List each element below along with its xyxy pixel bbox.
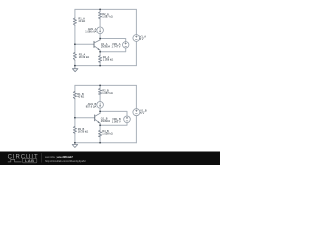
wire left vertical A lower (74, 60, 76, 65)
voltmeter VM1_B minus (126, 120, 128, 122)
transistor Q1_A collector lead (94, 40, 100, 43)
junction node B: rail/ground (74, 142, 76, 144)
transistor Q1_A emitter lead (94, 46, 100, 50)
svg-text:LAB: LAB (25, 158, 34, 163)
wire voltmeter loop bottom B (100, 123, 127, 126)
svg-text:1.058 kΩ: 1.058 kΩ (103, 58, 114, 62)
resistor R1_A zigzag (73, 18, 76, 25)
voltmeter VM1_A circle (123, 42, 129, 48)
wire right vertical A rail-V1 (135, 9, 137, 34)
svg-text:857.6 µA: 857.6 µA (86, 104, 97, 108)
ammeter AM1_B circle (97, 102, 104, 109)
resistor R3_B zigzag (73, 126, 76, 133)
ammeter AM1_B arrow (99, 103, 101, 107)
junction node A: collector/VM (99, 38, 101, 40)
wire left vertical B upper (74, 85, 76, 91)
wire bottom rail B (75, 142, 136, 144)
CircuitLab logo LAB box (23, 158, 37, 162)
voltmeter VM1_A minus (125, 45, 127, 47)
wire voltmeter loop bottom A (100, 48, 126, 52)
junction node B: collector/VM (99, 111, 101, 113)
voltmeter VM1_B circle (124, 116, 131, 123)
svg-text:1.083 V: 1.083 V (112, 119, 121, 123)
resistor R4_B zigzag (99, 130, 102, 137)
voltage source V1_A minus (135, 39, 137, 41)
wire base lead A (75, 43, 94, 45)
footer divider (40, 153, 42, 162)
svg-text:1.087 kΩ: 1.087 kΩ (102, 15, 113, 19)
wire voltmeter loop top B (100, 111, 127, 116)
wire right vertical A V1-rail (135, 41, 137, 65)
resistor R2_A zigzag (99, 12, 102, 19)
ammeter AM1_A circle (97, 27, 104, 34)
ground symbol A (72, 66, 78, 72)
wire middle vertical B R4-rail (99, 137, 101, 143)
resistor R1_B zigzag (73, 91, 76, 98)
voltage source V1_A circle (133, 35, 140, 42)
voltage source V1_B circle (133, 109, 140, 116)
wire middle vertical A rail-R2 (99, 9, 101, 11)
svg-text:1.747 V: 1.747 V (112, 45, 121, 49)
wire middle vertical B emitter-R4 (99, 123, 101, 130)
svg-text:40 kΩ: 40 kΩ (77, 95, 84, 99)
ground symbol B (72, 143, 78, 148)
svg-text:http://circuitlab.com/c3hamAy9: http://circuitlab.com/c3hamAy9ya6z (45, 159, 86, 163)
wire top rail B (75, 84, 136, 86)
junction node A: emitter/VM (99, 51, 101, 53)
svg-text:samrobu | ece-328-lab7: samrobu | ece-328-lab7 (45, 155, 73, 159)
junction node B: rail/R4 (99, 142, 101, 144)
resistor R2_B zigzag (99, 88, 102, 94)
junction node A: rail/ground (74, 65, 76, 67)
footer bar background (0, 152, 220, 166)
svg-text:5 V: 5 V (140, 111, 144, 115)
resistor R4_A zigzag (99, 56, 102, 63)
voltage source V1_B minus (136, 113, 138, 115)
transistor Q1_A emitter arrow (98, 48, 100, 50)
wire right vertical B V1-rail (135, 116, 137, 143)
wire middle vertical A ammeter-collector (99, 34, 101, 40)
junction node B: emitter/VM (99, 124, 101, 126)
wire middle vertical B R2-ammeter (99, 94, 101, 101)
svg-text:2N3904: 2N3904 (101, 44, 111, 48)
transistor Q1_B base bar (94, 115, 96, 121)
junction node B: base tap (74, 117, 76, 119)
wire right vertical B rail-V1 (135, 85, 137, 108)
wire base lead B (75, 117, 95, 119)
wire bottom rail A (75, 65, 136, 67)
junction node A: rail/R2 (99, 9, 101, 11)
wire top rail A (75, 8, 136, 10)
voltage source V1_A plus (135, 36, 137, 38)
wire left vertical B mid (74, 99, 76, 127)
svg-text:1.087 kΩ: 1.087 kΩ (102, 91, 113, 95)
transistor Q1_B emitter arrow (98, 121, 100, 123)
transistor Q1_A base bar (93, 41, 95, 47)
transistor Q1_B emitter lead (95, 119, 100, 123)
transistor Q1_B collector lead (95, 113, 100, 116)
voltage source V1_B plus (136, 110, 138, 112)
svg-text:2N3904: 2N3904 (101, 119, 111, 123)
wire middle vertical A emitter-R4 (99, 50, 101, 55)
wire voltmeter loop top A (100, 39, 126, 42)
wire left vertical A upper (74, 9, 76, 18)
wire left vertical B lower (74, 133, 76, 143)
svg-text:1.058 kΩ: 1.058 kΩ (102, 132, 113, 136)
resistor R3_A zigzag (73, 52, 76, 60)
wire middle vertical B ammeter-collector (99, 108, 101, 113)
voltmeter VM1_B plus (126, 117, 128, 119)
svg-text:18.39 kΩ: 18.39 kΩ (79, 55, 90, 59)
svg-text:5 V: 5 V (140, 37, 144, 41)
svg-text:1.086 mA: 1.086 mA (85, 30, 96, 34)
svg-text:40 kΩ: 40 kΩ (78, 19, 85, 23)
wire left vertical A mid (74, 25, 76, 52)
wire middle vertical A R4-rail (99, 62, 101, 65)
ammeter AM1_A arrow (99, 28, 101, 32)
junction node A: rail/R4 (99, 65, 101, 67)
wire middle vertical B rail-R2 (99, 85, 101, 88)
CircuitLab logo square wave (8, 159, 22, 162)
wire middle vertical A R2-ammeter (99, 19, 101, 27)
svg-text:18.39 kΩ: 18.39 kΩ (78, 130, 89, 134)
junction node B: rail/R2 (99, 85, 101, 87)
voltmeter VM1_A plus (125, 43, 127, 45)
junction node A: base tap (74, 43, 76, 45)
